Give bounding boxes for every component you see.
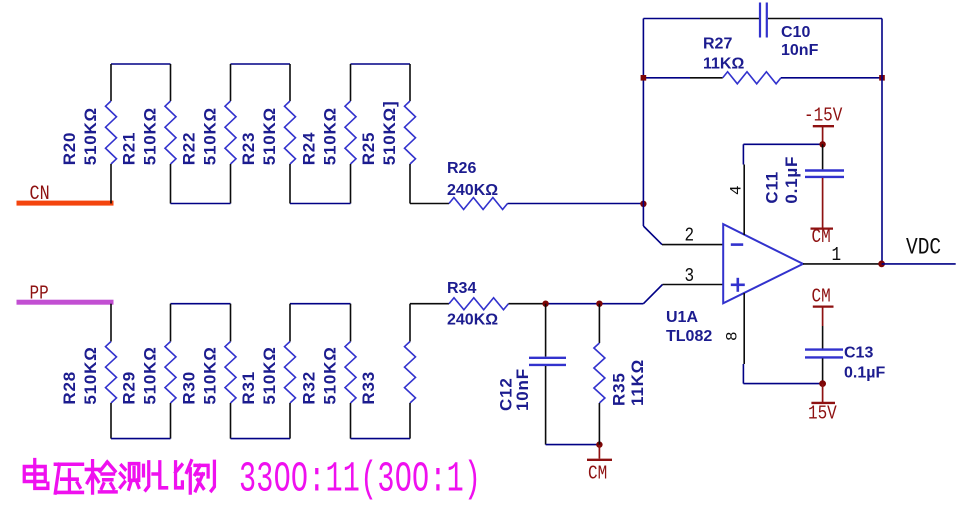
resistor R27 xyxy=(703,36,781,84)
svg-text:8: 8 xyxy=(724,331,742,341)
resistor R26 xyxy=(447,160,508,210)
svg-text:15V: 15V xyxy=(808,403,837,425)
wire C13 down xyxy=(822,358,824,383)
resistor R33 xyxy=(359,304,416,439)
wire top-chain upper link 2 xyxy=(231,63,291,65)
svg-text:510KΩ: 510KΩ xyxy=(201,346,220,404)
svg-text:R24: R24 xyxy=(300,132,319,166)
resistor R31 xyxy=(239,304,296,439)
svg-text:R35: R35 xyxy=(610,372,629,406)
svg-text:R30: R30 xyxy=(180,371,199,405)
svg-text:2: 2 xyxy=(685,225,695,247)
svg-text:PP: PP xyxy=(30,283,49,305)
pin 8 label xyxy=(724,331,742,341)
pin 4 label xyxy=(728,185,746,195)
node output junction xyxy=(878,261,885,268)
resistor R32 xyxy=(300,304,357,439)
wire pin2 xyxy=(662,244,723,246)
svg-text:510KΩ]: 510KΩ] xyxy=(380,101,399,166)
wire R26 to node A xyxy=(508,203,644,205)
wire node A to pin2 diagonal xyxy=(643,226,662,245)
power 15V xyxy=(808,384,837,426)
ground CM net (C11) xyxy=(811,227,834,249)
svg-text:4: 4 xyxy=(728,185,746,195)
svg-text:R31: R31 xyxy=(239,371,258,405)
wire top-chain lower link 2 xyxy=(290,203,351,205)
svg-text:11KΩ: 11KΩ xyxy=(703,56,744,73)
svg-text:R27: R27 xyxy=(703,36,732,53)
wire bottom-chain lower link 1 xyxy=(111,438,171,440)
svg-text:R22: R22 xyxy=(180,132,199,166)
text title Chinese 电压检测比例 xyxy=(24,460,214,493)
svg-text:C10: C10 xyxy=(781,24,810,41)
wire C11 to CM xyxy=(822,178,824,228)
svg-text:C11: C11 xyxy=(763,171,782,204)
wire R33 to R34 xyxy=(410,303,449,305)
svg-text:U1A: U1A xyxy=(666,309,698,326)
wire pin4 to -15V node xyxy=(743,143,822,145)
svg-text:R20: R20 xyxy=(60,132,79,166)
capacitor C12 xyxy=(497,358,567,411)
wire R34 to node B xyxy=(509,303,546,305)
node C junction xyxy=(596,301,602,307)
ground CM net (bottom) xyxy=(587,445,612,485)
svg-text:10nF: 10nF xyxy=(781,42,819,59)
svg-text:CN: CN xyxy=(30,183,50,206)
wire R27 right xyxy=(781,77,882,79)
svg-text:TL082: TL082 xyxy=(666,328,712,345)
svg-text:510KΩ: 510KΩ xyxy=(81,346,100,404)
wire top-chain upper link 3 xyxy=(351,63,411,65)
capacitor C13 xyxy=(805,345,885,382)
wire pin4 vertical xyxy=(742,144,745,235)
resistor R24 xyxy=(300,64,357,204)
wire pin8 vertical xyxy=(742,293,745,384)
ground CM net (C13) xyxy=(812,286,834,308)
wire R25 to R26 xyxy=(410,203,449,205)
resistor R22 xyxy=(180,64,237,204)
svg-text:R33: R33 xyxy=(359,371,378,405)
svg-text:-15V: -15V xyxy=(804,105,843,127)
wire output pin1 xyxy=(803,263,882,265)
wire CM to C13 xyxy=(822,307,824,349)
wire bottom-chain upper link 1 xyxy=(171,303,231,305)
wire node B to node C xyxy=(546,303,644,305)
node C13 junction xyxy=(819,380,826,387)
resistor R29 xyxy=(120,304,177,439)
svg-text:R25: R25 xyxy=(359,132,378,166)
svg-text:510KΩ: 510KΩ xyxy=(260,346,279,404)
svg-text:510KΩ: 510KΩ xyxy=(321,107,340,165)
text title ratio xyxy=(239,455,481,503)
wire bottom-chain lower link 2 xyxy=(231,438,291,440)
node feedback-left junction xyxy=(641,75,647,81)
resistor R21 xyxy=(120,64,177,204)
wire feedback right vertical xyxy=(881,19,883,264)
resistor R23 xyxy=(239,64,296,204)
svg-text:CM: CM xyxy=(812,286,831,308)
svg-text:R32: R32 xyxy=(300,371,319,405)
node A junction xyxy=(640,201,646,207)
svg-text:240KΩ: 240KΩ xyxy=(447,182,498,199)
node -15V junction xyxy=(819,141,825,147)
svg-text:C13: C13 xyxy=(844,345,873,362)
power -15V xyxy=(804,105,843,143)
wire C10 right xyxy=(768,18,882,20)
wire feedback left vertical xyxy=(642,19,644,227)
wire -15V node to C11 xyxy=(822,144,824,169)
pin 1 label xyxy=(832,245,842,267)
svg-text:11KΩ: 11KΩ xyxy=(628,359,647,406)
wire node C down to R35 xyxy=(598,304,600,343)
node D junction xyxy=(596,441,602,447)
svg-text:R23: R23 xyxy=(239,132,258,166)
wire node B down to C12 xyxy=(545,304,547,357)
wire CN net (orange) xyxy=(17,201,114,206)
svg-text:510KΩ: 510KΩ xyxy=(201,107,220,165)
resistor R20 xyxy=(60,64,117,204)
pin 2 label xyxy=(685,225,695,247)
resistor R35 xyxy=(594,343,647,406)
svg-text:R26: R26 xyxy=(447,160,476,177)
node B junction xyxy=(542,301,548,307)
svg-text:CM: CM xyxy=(588,463,607,485)
svg-text:R29: R29 xyxy=(120,371,139,405)
resistor R25 xyxy=(359,64,416,204)
node PP label xyxy=(30,283,49,305)
svg-text:R34: R34 xyxy=(447,280,476,297)
wire R35 down xyxy=(598,403,600,445)
svg-text:CM: CM xyxy=(812,227,831,249)
node VDC label xyxy=(906,235,941,261)
svg-text:510KΩ: 510KΩ xyxy=(141,107,160,165)
wire top-chain lower link 1 xyxy=(171,203,231,205)
wire C10 left xyxy=(643,18,759,20)
wire C12 down xyxy=(545,366,547,445)
svg-text:10nF: 10nF xyxy=(513,368,532,411)
svg-text:510KΩ: 510KΩ xyxy=(81,107,100,165)
svg-text:R28: R28 xyxy=(60,371,79,405)
svg-text:510KΩ: 510KΩ xyxy=(321,346,340,404)
svg-text:1: 1 xyxy=(832,245,842,267)
capacitor C11 xyxy=(763,156,845,204)
svg-text:0.1µF: 0.1µF xyxy=(844,365,885,382)
svg-text:VDC: VDC xyxy=(906,235,941,261)
node feedback-right junction xyxy=(879,75,885,81)
wire top-chain upper link 1 xyxy=(111,63,171,65)
pin 3 label xyxy=(685,266,695,288)
svg-text:R21: R21 xyxy=(120,132,139,166)
wire pin3 xyxy=(663,284,724,286)
wire C12 to R35 bottom xyxy=(546,444,600,446)
wire R27 left xyxy=(643,77,722,79)
wire node C to pin3 diagonal xyxy=(643,285,662,304)
wire bottom-chain upper link 2 xyxy=(290,303,351,305)
wire pin8 to C13 node xyxy=(743,383,822,385)
capacitor C10 xyxy=(760,3,819,60)
op-amp U1A xyxy=(666,224,803,345)
resistor R34 xyxy=(447,280,509,329)
wire output to VDC xyxy=(882,263,956,265)
node CN label xyxy=(30,183,50,206)
svg-text:3: 3 xyxy=(685,266,695,288)
svg-text:510KΩ: 510KΩ xyxy=(141,346,160,404)
resistor R30 xyxy=(180,304,237,439)
svg-text:33OO:11(3OO:1): 33OO:11(3OO:1) xyxy=(239,455,481,503)
wire PP net (purple) xyxy=(17,300,114,305)
svg-text:510KΩ: 510KΩ xyxy=(260,107,279,165)
svg-text:0.1µF: 0.1µF xyxy=(782,156,801,204)
svg-text:240KΩ: 240KΩ xyxy=(447,312,498,329)
resistor R28 xyxy=(60,304,117,439)
wire bottom-chain lower link 3 xyxy=(351,438,411,440)
